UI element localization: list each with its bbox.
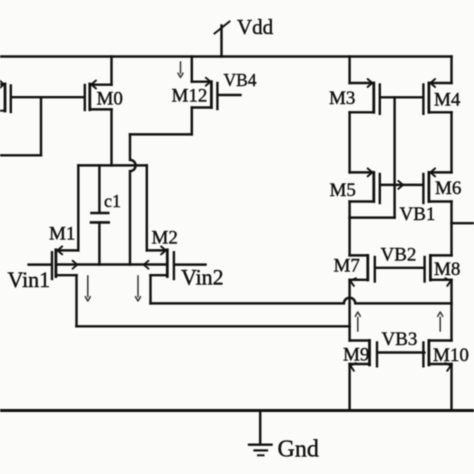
wire M2 drain down xyxy=(149,275,151,303)
svg-text:Vdd: Vdd xyxy=(237,15,274,39)
wire M4 source to rail xyxy=(450,57,452,84)
capacitor c1 xyxy=(91,213,109,222)
svg-text:c1: c1 xyxy=(104,191,121,211)
transistor M8 xyxy=(425,255,452,286)
wire M2 drain to M8 column with hop over M7 wire xyxy=(151,298,452,304)
ground xyxy=(249,411,272,456)
node wire top edge (M0 drain to M1/M2 drains) xyxy=(78,164,147,166)
wire tap horizontal to left edge xyxy=(0,154,41,156)
svg-text:M5: M5 xyxy=(330,180,356,201)
svg-text:M8: M8 xyxy=(434,259,460,280)
svg-text:VB3: VB3 xyxy=(382,329,418,350)
wire M3 drain down to M5 xyxy=(348,112,350,172)
wire M0 source to rail xyxy=(110,57,112,85)
transistor M12 xyxy=(192,78,218,109)
wire M12 gate lead xyxy=(219,94,241,96)
wire M10 source down to ground rail xyxy=(450,364,452,411)
svg-text:VB4: VB4 xyxy=(224,70,257,90)
svg-text:M2: M2 xyxy=(152,228,178,249)
svg-text:M3: M3 xyxy=(329,88,355,109)
arrow right on source line xyxy=(73,261,78,269)
transistor M2 xyxy=(147,246,174,279)
wire M2 gate lead (Vin2) xyxy=(175,263,206,265)
svg-text:VB1: VB1 xyxy=(400,204,436,225)
wire gate tap vertical VB1 xyxy=(393,185,395,218)
svg-text:Gnd: Gnd xyxy=(278,437,319,463)
wire M9 source down to ground rail xyxy=(348,364,350,411)
arrow right on gate line xyxy=(398,181,403,189)
wire gate lead left transistor to M0 gate xyxy=(12,96,84,98)
transistor M0 xyxy=(85,81,112,111)
transistor M7 xyxy=(350,255,375,286)
ground rail (bottom wire) xyxy=(0,409,474,412)
transistor M9 xyxy=(350,341,377,371)
transistor M5 xyxy=(350,168,380,203)
wire M9-M10 gate line xyxy=(378,351,424,353)
current arrow down left xyxy=(85,276,90,301)
svg-text:M4: M4 xyxy=(434,90,461,111)
wire M7 drain down through hop to M9 xyxy=(348,280,350,341)
arrow left on source line xyxy=(144,261,149,269)
capacitor c1 top lead xyxy=(98,165,100,212)
wire M4 drain down to M6 xyxy=(450,112,452,172)
wire left edge down to M1 xyxy=(77,165,79,250)
svg-text:M12: M12 xyxy=(172,86,208,107)
wire right edge down to M2 xyxy=(146,165,148,250)
wire M12 drain down xyxy=(191,108,193,135)
wire M12 source to rail xyxy=(191,57,193,82)
svg-text:M1: M1 xyxy=(49,224,75,245)
wire M5-M6 gate line xyxy=(381,184,423,186)
wire M1 gate lead (Vin1) xyxy=(29,263,51,265)
wire M7-M8 gate line xyxy=(376,267,424,269)
current arrow up left xyxy=(355,312,360,331)
wire M12 drain vertical with hop over node line xyxy=(130,134,136,264)
wire M5 drain down xyxy=(348,202,350,218)
wire M8 drain down to M10 xyxy=(450,280,452,341)
transistor M10 xyxy=(423,341,451,371)
svg-text:M0: M0 xyxy=(97,89,123,110)
svg-text:VB2: VB2 xyxy=(381,245,417,266)
wire M1 drain down xyxy=(75,275,77,326)
current arrow down near M12 xyxy=(178,62,183,78)
transistor M1 xyxy=(52,246,78,279)
transistor M4 xyxy=(423,79,451,114)
wire tap vertical xyxy=(40,97,42,155)
transistor M6 xyxy=(423,168,451,203)
wire M12 drain horizontal xyxy=(130,133,192,135)
Vdd tick xyxy=(215,22,230,34)
svg-text:M9: M9 xyxy=(343,345,369,366)
wire M1 drain to M9 column xyxy=(77,325,350,327)
current arrow down right xyxy=(136,276,141,301)
Vdd rail (top supply wire) xyxy=(0,55,452,58)
wire M6 drain down to M8 xyxy=(450,202,452,256)
svg-text:Vin1: Vin1 xyxy=(8,267,51,292)
wire M0 drain down xyxy=(110,109,112,165)
current arrow up right xyxy=(438,312,443,331)
wire M5 column down to M7 xyxy=(348,218,350,256)
wire M3 source to rail xyxy=(348,57,350,84)
wire gate tap M3/M4 down to M5/M6 gate line xyxy=(393,97,395,185)
transistor (left, cut off at edge) xyxy=(0,80,11,112)
wire branch to right edge xyxy=(452,222,474,224)
wire M5 drain horizontal to gate tap xyxy=(350,216,395,218)
transistor M3 xyxy=(350,79,380,114)
svg-text:Vin2: Vin2 xyxy=(181,265,224,290)
Vdd stub wire xyxy=(220,26,222,57)
capacitor c1 bottom lead xyxy=(98,224,100,265)
wire common source line M1-M2 xyxy=(56,263,167,265)
svg-text:M6: M6 xyxy=(435,178,461,199)
wire M3-M4 gate line xyxy=(381,96,423,98)
svg-text:M7: M7 xyxy=(334,256,360,277)
